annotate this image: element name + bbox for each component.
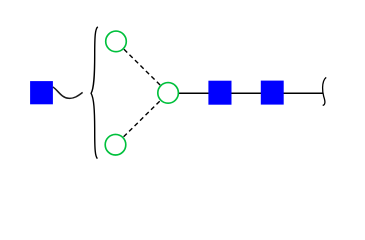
- monosaccharide: GlcNAc blue square (reducing end, left): [30, 81, 53, 104]
- monosaccharide: GlcNAc blue square (right): [261, 81, 284, 105]
- wire: dashed bond bottom circle to middle circle: [124, 93, 169, 137]
- wire: horizontal bond from middle circle to right squiggle: [168, 92, 322, 94]
- monosaccharide: Man green circle (bottom antenna): [105, 134, 126, 155]
- left curly brace: [91, 27, 98, 159]
- right squiggle bracket: [323, 77, 327, 105]
- monosaccharide: GlcNAc blue square (middle): [208, 81, 231, 105]
- monosaccharide: Man green circle (top antenna): [106, 31, 127, 52]
- wire: dashed bond top circle to middle circle: [124, 49, 168, 93]
- wire: wavy reducing-end line from left square: [53, 87, 83, 98]
- monosaccharide: Man green circle (core, middle): [158, 83, 179, 104]
